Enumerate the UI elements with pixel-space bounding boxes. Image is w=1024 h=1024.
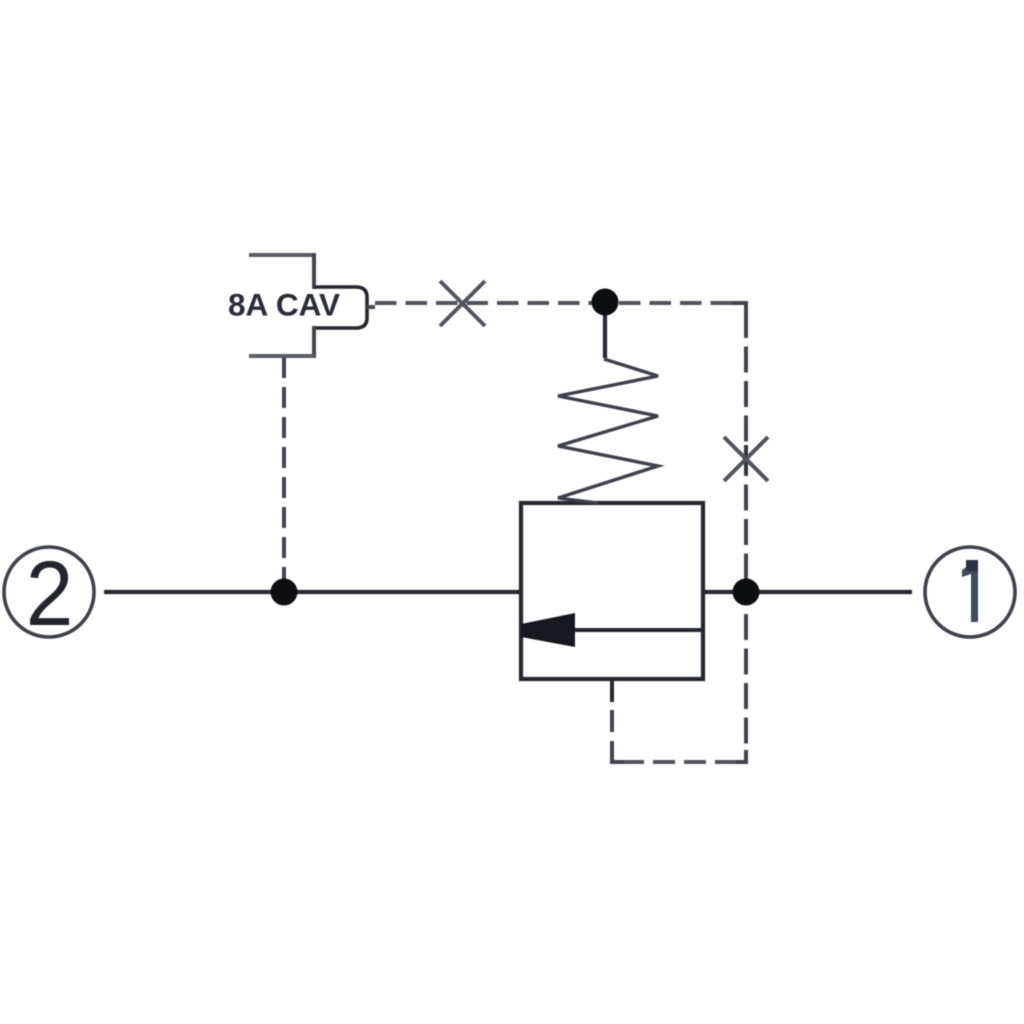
pilot wire corner top right <box>732 303 746 318</box>
drain wire dashed below node (continues down) <box>744 614 748 752</box>
drain wire from valve bottom <box>612 678 746 762</box>
node junction on main line left <box>271 579 298 606</box>
pilot wire dashed top horizontal <box>375 301 746 305</box>
svg-text:2: 2 <box>26 542 74 645</box>
port circle 2 <box>4 542 94 645</box>
node junction top (spring / pilot line) <box>592 289 619 316</box>
wire main line right (valve to port 1) <box>703 590 912 594</box>
orifice plug X left <box>440 281 485 326</box>
wire main line left (port 2 to valve) <box>104 590 521 594</box>
node junction on main line right <box>733 579 760 606</box>
pilot wire dashed vertical left (cavity to main line) <box>282 357 286 592</box>
port circle 1 <box>925 547 1015 637</box>
8A CAV cavity symbol <box>228 253 375 358</box>
spring <box>558 302 658 503</box>
flow arrow inside valve (points left) <box>521 613 701 647</box>
wire solid segment through right plug <box>744 445 748 474</box>
pilot wire dashed vertical right (corner to node and below) <box>744 312 748 592</box>
orifice plug X right <box>724 437 768 481</box>
svg-text:8A CAV: 8A CAV <box>228 287 340 323</box>
valve envelope box <box>521 503 703 679</box>
